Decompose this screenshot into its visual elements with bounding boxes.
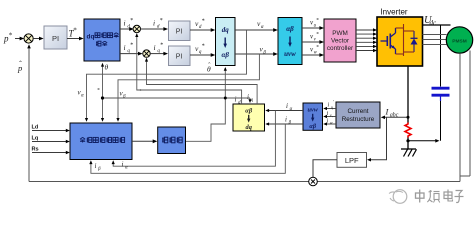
svg-text:*: * bbox=[202, 44, 205, 50]
wire theta_hat to command block and observer bbox=[102, 64, 104, 98]
svg-text:PI: PI bbox=[176, 54, 183, 61]
block dq current command calculation (dq电流指令计算) bbox=[84, 19, 120, 61]
svg-text:*: * bbox=[202, 19, 205, 25]
svg-text:PI: PI bbox=[52, 34, 59, 43]
freewheel diode bbox=[411, 39, 418, 45]
svg-text:i: i bbox=[285, 116, 287, 124]
svg-text:ˆ: ˆ bbox=[19, 59, 22, 68]
wire theta_hat into alpha-beta/dq bbox=[249, 98, 251, 102]
svg-text:Ld: Ld bbox=[32, 125, 39, 131]
svg-text:*: * bbox=[316, 44, 319, 50]
wire LPF out to multiplier bbox=[313, 160, 337, 178]
wire id* error to PI bbox=[141, 28, 166, 30]
inverter power stage bbox=[377, 17, 423, 66]
summing junction S1 (power loop) bbox=[24, 34, 33, 43]
svg-text:dc: dc bbox=[430, 19, 438, 27]
svg-text:dq: dq bbox=[222, 26, 230, 34]
inverter internal bus wires bbox=[396, 27, 404, 29]
block Current Restructure bbox=[336, 102, 380, 128]
wire inverter negative rail bbox=[407, 66, 409, 123]
svg-text:i: i bbox=[122, 161, 124, 169]
svg-text:Vector: Vector bbox=[331, 38, 350, 45]
wire observer to PLL bbox=[132, 140, 155, 142]
summing junction S3 (q-axis current) bbox=[143, 50, 150, 57]
svg-text:*: * bbox=[316, 31, 319, 37]
node Udc bus bbox=[423, 24, 451, 26]
wire S1 to speed PI bbox=[33, 38, 41, 40]
wire i_beta bbox=[267, 123, 303, 125]
wire i_alpha branch to observer bbox=[113, 111, 275, 167]
wire T* torque command bbox=[67, 38, 81, 40]
wire v_alpha* bbox=[235, 29, 276, 31]
wire i_alpha bbox=[267, 110, 303, 112]
svg-text:d: d bbox=[199, 24, 202, 30]
svg-text:i: i bbox=[328, 102, 330, 109]
svg-text:q: q bbox=[157, 48, 160, 54]
watermark logo Sinowealth bbox=[393, 190, 407, 204]
svg-text:Inverter: Inverter bbox=[380, 8, 407, 17]
svg-text:': ' bbox=[332, 117, 333, 122]
svg-text:i: i bbox=[286, 102, 288, 110]
PI controller (d current) bbox=[169, 21, 191, 41]
svg-text:*: * bbox=[160, 43, 163, 49]
svg-text:uvw: uvw bbox=[284, 50, 296, 58]
svg-text:controller: controller bbox=[327, 45, 354, 52]
svg-text:αβ: αβ bbox=[286, 25, 294, 33]
svg-text:q: q bbox=[199, 49, 202, 55]
wire i_beta branch to observer bbox=[91, 124, 285, 173]
svg-text:αβ: αβ bbox=[221, 51, 229, 59]
wire v_beta* branch to observer bbox=[118, 54, 259, 121]
wire vw* bbox=[302, 54, 322, 56]
svg-text:*: * bbox=[73, 27, 77, 35]
wire cap to shunt node bbox=[408, 140, 437, 142]
block full-order state observer (全维状态观测器) bbox=[70, 123, 132, 160]
svg-text:i: i bbox=[235, 96, 237, 104]
wire v_beta* bbox=[235, 53, 276, 55]
svg-text:*: * bbox=[130, 18, 133, 24]
svg-text:uvw: uvw bbox=[308, 107, 319, 114]
block LPF bbox=[337, 153, 367, 168]
svg-text:*: * bbox=[160, 18, 163, 24]
PI controller (q current) bbox=[169, 46, 191, 66]
svg-text:': ' bbox=[333, 101, 334, 106]
wire theta_hat distribution bbox=[186, 68, 226, 141]
watermark text 中颖电子 bbox=[416, 193, 425, 198]
svg-text:i: i bbox=[154, 43, 156, 52]
block alpha-beta to uvw transform bbox=[278, 18, 302, 65]
svg-text:αβ: αβ bbox=[245, 108, 253, 115]
svg-text:PWM: PWM bbox=[332, 30, 348, 37]
block dq to alpha-beta transform bbox=[216, 18, 236, 66]
wire iq* error to PI bbox=[150, 53, 165, 55]
wire dc-link capacitor branch bbox=[440, 25, 442, 87]
svg-text:i: i bbox=[124, 19, 126, 28]
svg-text:*: * bbox=[97, 87, 100, 93]
svg-text:q: q bbox=[127, 48, 130, 54]
svg-text:dq: dq bbox=[246, 124, 253, 131]
wire Idc tap bbox=[383, 116, 408, 118]
wire v_alpha* branch to observer bbox=[87, 30, 247, 121]
svg-text:d: d bbox=[157, 23, 160, 29]
capacitor C (dc link) bbox=[432, 87, 450, 90]
wire Rs input bbox=[32, 152, 68, 154]
svg-text:αβ: αβ bbox=[309, 123, 316, 130]
svg-text:Lq: Lq bbox=[32, 136, 39, 142]
gate drive wires (6) bbox=[356, 29, 375, 31]
resistor R_shunt bbox=[405, 123, 411, 138]
svg-text:α: α bbox=[261, 24, 264, 30]
wire iq* bbox=[120, 53, 141, 55]
svg-text:i: i bbox=[327, 117, 329, 124]
wire Idc to LPF bbox=[369, 117, 387, 160]
wire iw' bbox=[325, 123, 336, 125]
svg-text:i: i bbox=[153, 19, 155, 28]
wire iu' bbox=[325, 108, 336, 110]
svg-text:abc: abc bbox=[390, 112, 399, 118]
block PWM Vector controller bbox=[324, 19, 356, 62]
wire motor feedback right bbox=[459, 53, 461, 181]
wire Lq input bbox=[32, 141, 68, 143]
wire p_hat feedback left bbox=[28, 46, 30, 182]
wire Ld input bbox=[32, 130, 68, 132]
svg-text:PMSM: PMSM bbox=[452, 39, 466, 45]
wire vq* bbox=[190, 54, 213, 56]
svg-text:i: i bbox=[124, 43, 126, 52]
svg-text:i: i bbox=[327, 110, 329, 117]
multiplier M1 bbox=[309, 177, 318, 186]
wire i_q feedback bus bbox=[147, 59, 258, 105]
block alpha-beta to dq transform bbox=[233, 104, 265, 131]
ground bbox=[401, 148, 416, 150]
svg-text:β: β bbox=[262, 49, 266, 55]
motor PMSM bbox=[446, 27, 472, 53]
block uvw to alpha-beta transform bbox=[303, 103, 323, 130]
svg-text:*: * bbox=[130, 43, 133, 49]
svg-text:*: * bbox=[316, 17, 319, 23]
wire bottom feedback bbox=[29, 181, 460, 183]
block PLL (锁相环) bbox=[158, 127, 186, 154]
wire vu* bbox=[302, 27, 322, 29]
svg-text:Current: Current bbox=[348, 108, 369, 115]
svg-text:*: * bbox=[9, 32, 13, 40]
summing junction S2 (d-axis current) bbox=[133, 25, 140, 32]
wire iv' bbox=[325, 116, 336, 118]
svg-text:i: i bbox=[95, 162, 97, 170]
wire vv* bbox=[302, 41, 322, 43]
wire i_d feedback bus bbox=[137, 34, 242, 104]
wire id* bbox=[120, 28, 132, 30]
IGBT symbol bbox=[381, 40, 388, 42]
motor phase wires (3) bbox=[423, 34, 447, 36]
wire vd* bbox=[190, 29, 213, 31]
svg-text:*: * bbox=[139, 88, 142, 94]
svg-text:Rs: Rs bbox=[32, 147, 39, 153]
svg-text:dq: dq bbox=[87, 34, 95, 41]
svg-text:Restructure: Restructure bbox=[342, 116, 375, 123]
svg-text:d: d bbox=[127, 23, 130, 29]
svg-text:PI: PI bbox=[176, 29, 183, 36]
svg-text:LPF: LPF bbox=[345, 156, 359, 165]
svg-text:': ' bbox=[332, 109, 333, 114]
